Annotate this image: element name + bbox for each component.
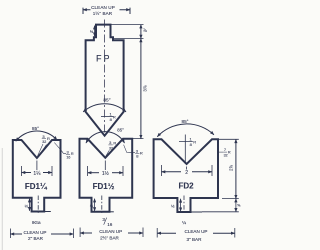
top clean-up dimension line — [83, 9, 130, 11]
punch tip angle arc 85deg — [83, 104, 126, 112]
svg-text:85°: 85° — [103, 97, 110, 103]
die FD1-1/4 tang depth dim 1/2 — [29, 199, 31, 211]
svg-text:½: ½ — [171, 204, 175, 209]
die FD2 tang depth dim 1/2 — [180, 199, 182, 211]
svg-text:FD1¼: FD1¼ — [25, 182, 48, 191]
svg-text:7: 7 — [224, 147, 227, 152]
punch centerline — [104, 20, 106, 136]
svg-text:1½: 1½ — [102, 170, 110, 177]
svg-text:32: 32 — [109, 146, 113, 150]
svg-text:R: R — [193, 139, 196, 144]
punch tang small dim 1/2 — [94, 26, 96, 37]
top clean-up dimension for punch: text — [91, 5, 115, 16]
svg-text:⅝: ⅝ — [237, 203, 241, 207]
svg-text:2: 2 — [185, 170, 188, 176]
svg-text:3: 3 — [66, 150, 69, 155]
die FD1-1/2 vee width dim 1-1/2 — [88, 166, 123, 176]
svg-text:2⅞: 2⅞ — [229, 165, 234, 171]
svg-text:16: 16 — [107, 222, 113, 227]
svg-text:FP: FP — [96, 54, 112, 64]
svg-text:½: ½ — [25, 204, 29, 209]
svg-text:8: 8 — [136, 153, 139, 158]
svg-text:⅞: ⅞ — [143, 28, 147, 33]
die FD1-1/4 clean-up dim — [10, 229, 73, 239]
svg-text:¼: ¼ — [182, 220, 186, 225]
svg-text:R: R — [140, 151, 143, 156]
punch height dim extension lines — [111, 25, 144, 139]
die FD2 vee radius leader and label 1/8R — [179, 135, 193, 165]
svg-text:CLEAN UP: CLEAN UP — [24, 230, 47, 235]
svg-text:85°: 85° — [117, 127, 124, 132]
die FD2 angle arc 85deg — [157, 124, 214, 137]
die FD2 tang bottom extension — [191, 211, 203, 213]
die FD1-1/2 tang depth dim 1/2 — [94, 199, 96, 211]
svg-text:FD1½: FD1½ — [93, 182, 115, 191]
svg-text:3⅞: 3⅞ — [143, 85, 148, 91]
middle die angle arc 85deg — [86, 132, 125, 143]
svg-text:R: R — [228, 150, 231, 155]
die FD1-1/2 tang centerline — [101, 196, 103, 215]
die FD1-1/4 block outline — [13, 140, 61, 212]
punch tip radius leader — [101, 115, 114, 117]
die FD2 block outline — [154, 139, 218, 212]
die FD1-1/2 block outline — [80, 139, 133, 212]
svg-text:FD2: FD2 — [178, 181, 194, 190]
die FD1-1/2 clean-up dim — [80, 228, 143, 238]
svg-text:CLEAN UP: CLEAN UP — [185, 229, 208, 234]
svg-text:32: 32 — [42, 140, 46, 144]
die FD2 tang centerline — [183, 196, 185, 215]
svg-text:3: 3 — [42, 134, 45, 139]
punch tang height dim 7/8 — [140, 25, 142, 39]
die FD2 clean-up dim — [157, 228, 235, 238]
die FD2 height dim 2-7/8 extension lines — [202, 139, 239, 212]
svg-text:R: R — [113, 141, 116, 146]
die FD2 tang height dim — [235, 199, 237, 212]
die FD1-1/4 tang bottom extension — [44, 211, 51, 213]
svg-text:2" BAR: 2" BAR — [28, 236, 44, 241]
svg-text:R: R — [71, 151, 74, 156]
svg-text:CLEAN UP: CLEAN UP — [99, 229, 122, 234]
svg-text:3: 3 — [109, 140, 112, 145]
svg-text:85°: 85° — [182, 119, 189, 124]
svg-text:R: R — [113, 114, 116, 119]
svg-text:1½" BAR: 1½" BAR — [93, 10, 113, 16]
svg-text:3" BAR: 3" BAR — [187, 237, 203, 242]
die FD1-1/4 tang centerline — [37, 196, 39, 215]
svg-text:CLEAN UP: CLEAN UP — [91, 5, 115, 10]
svg-text:9Ga: 9Ga — [32, 220, 41, 225]
punch FP outline — [86, 25, 124, 136]
svg-text:1¼: 1¼ — [33, 171, 41, 177]
svg-text:R: R — [47, 136, 50, 141]
svg-text:2½" BAR: 2½" BAR — [100, 235, 119, 241]
top clean-up extension ticks — [83, 8, 130, 14]
svg-text:½: ½ — [90, 204, 94, 209]
die FD1-1/4 angle arc 85deg — [16, 131, 57, 141]
svg-text:85°: 85° — [32, 126, 39, 131]
die FD2 height dim 2-7/8 — [235, 139, 237, 198]
scan edge artifact left — [1, 148, 3, 250]
punch body height dim 3-7/8 — [140, 39, 142, 139]
die FD2 vee width dim 2 — [162, 165, 213, 176]
svg-text:1: 1 — [189, 137, 192, 142]
die FD1-1/2 tang bottom extension — [110, 211, 114, 213]
svg-text:16: 16 — [66, 156, 70, 160]
svg-text:½: ½ — [90, 30, 93, 34]
die FD1-1/4 vee width dim 1-1/4 — [22, 166, 53, 176]
